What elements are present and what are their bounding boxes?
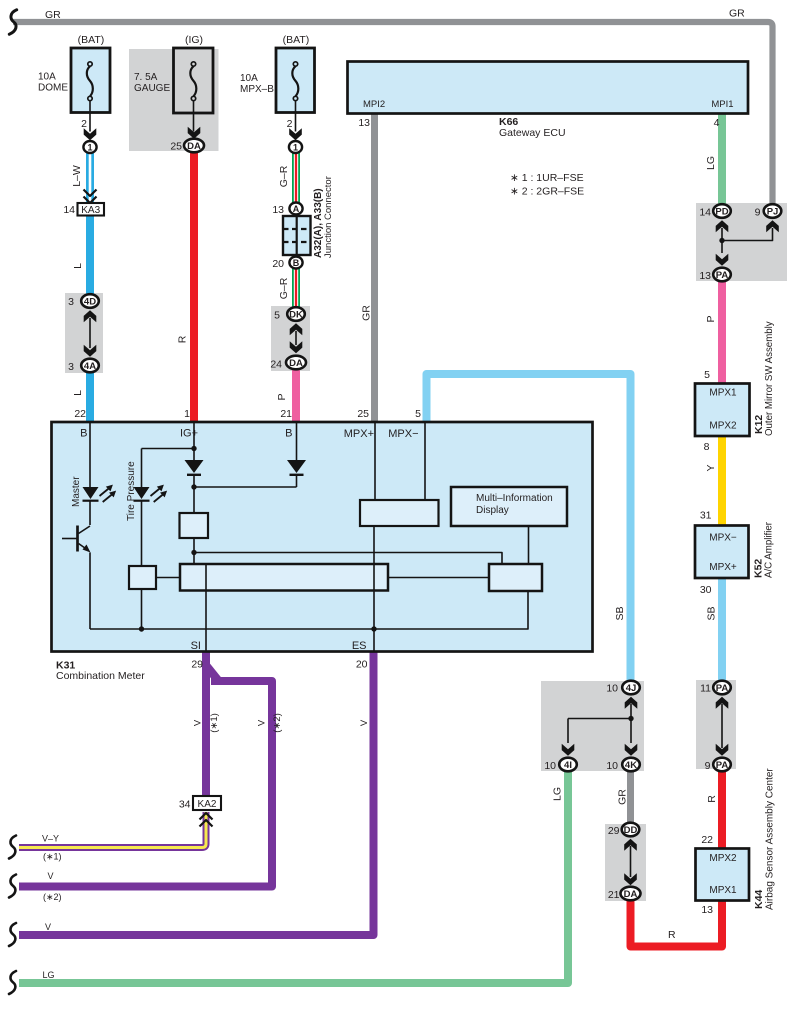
svg-text:DD: DD — [624, 825, 638, 836]
svg-text:DK: DK — [289, 310, 303, 321]
svg-text:PA: PA — [716, 683, 729, 694]
svg-text:30: 30 — [700, 584, 712, 596]
svg-text:7. 5A: 7. 5A — [134, 72, 158, 83]
svg-text:GR: GR — [361, 305, 373, 321]
svg-text:25: 25 — [170, 141, 182, 153]
svg-text:Multi–Information: Multi–Information — [476, 493, 553, 504]
svg-text:20: 20 — [272, 258, 284, 270]
svg-text:DA: DA — [624, 889, 638, 900]
svg-text:GR: GR — [617, 789, 629, 805]
svg-text:21: 21 — [608, 889, 620, 901]
svg-text:V: V — [193, 719, 204, 726]
svg-text:8: 8 — [704, 441, 710, 453]
svg-text:DA: DA — [187, 141, 201, 152]
svg-text:20: 20 — [356, 659, 368, 671]
svg-text:Combination Meter: Combination Meter — [56, 670, 145, 682]
svg-text:4D: 4D — [84, 297, 96, 308]
svg-text:31: 31 — [700, 510, 712, 522]
svg-text:PD: PD — [715, 207, 728, 218]
svg-text:9: 9 — [755, 207, 761, 219]
svg-text:V: V — [257, 719, 268, 726]
svg-text:1: 1 — [184, 408, 190, 420]
svg-text:L: L — [72, 390, 84, 396]
svg-text:11: 11 — [700, 683, 711, 695]
svg-text:PA: PA — [716, 760, 729, 771]
svg-text:MPX2: MPX2 — [709, 421, 737, 432]
svg-text:5: 5 — [274, 310, 280, 322]
svg-text:22: 22 — [701, 834, 713, 846]
svg-text:29: 29 — [608, 825, 620, 837]
svg-text:10A: 10A — [38, 72, 56, 83]
svg-text:1: 1 — [293, 143, 298, 153]
svg-text:P: P — [276, 393, 288, 400]
svg-text:25: 25 — [357, 408, 369, 420]
svg-text:LG: LG — [43, 970, 55, 980]
svg-text:PA: PA — [716, 270, 729, 281]
svg-text:G–R: G–R — [278, 165, 290, 187]
svg-text:SI: SI — [191, 640, 201, 652]
svg-text:10A: 10A — [240, 73, 258, 84]
svg-text:K44: K44 — [753, 890, 765, 909]
svg-text:13: 13 — [701, 904, 713, 916]
svg-text:Gateway ECU: Gateway ECU — [499, 127, 566, 139]
svg-text:(∗2): (∗2) — [43, 892, 62, 902]
svg-text:1: 1 — [87, 143, 92, 153]
svg-text:MPX−: MPX− — [709, 533, 737, 544]
svg-text:MPX–B: MPX–B — [240, 84, 274, 95]
svg-text:4: 4 — [714, 117, 720, 129]
svg-text:13: 13 — [272, 204, 284, 216]
svg-text:PJ: PJ — [767, 207, 779, 218]
svg-text:IG+: IG+ — [180, 428, 198, 440]
svg-text:14: 14 — [63, 204, 75, 216]
svg-text:SB: SB — [614, 606, 626, 620]
svg-text:GAUGE: GAUGE — [134, 83, 170, 94]
svg-text:MPX+: MPX+ — [344, 428, 374, 440]
svg-text:10: 10 — [606, 683, 618, 695]
svg-text:P: P — [705, 315, 717, 322]
svg-text:A/C Amplifier: A/C Amplifier — [764, 521, 775, 578]
svg-text:∗ 2 : 2GR–FSE: ∗ 2 : 2GR–FSE — [510, 186, 584, 198]
svg-text:Outer Mirror SW Assembly: Outer Mirror SW Assembly — [764, 321, 775, 436]
svg-text:V: V — [359, 719, 370, 726]
svg-text:Junction Connector: Junction Connector — [323, 176, 334, 258]
svg-text:V–Y: V–Y — [42, 834, 59, 844]
svg-text:R: R — [668, 929, 676, 941]
svg-text:4I: 4I — [564, 760, 572, 771]
svg-text:∗ 1 : 1UR–FSE: ∗ 1 : 1UR–FSE — [510, 172, 584, 184]
svg-text:DA: DA — [289, 358, 303, 369]
svg-text:SB: SB — [706, 606, 718, 620]
svg-text:MPX1: MPX1 — [709, 885, 737, 896]
svg-text:2: 2 — [81, 118, 87, 130]
svg-text:R: R — [706, 795, 718, 803]
svg-text:B: B — [293, 258, 300, 268]
svg-text:V: V — [48, 871, 54, 881]
svg-text:10: 10 — [544, 760, 556, 772]
svg-text:L–W: L–W — [71, 165, 83, 187]
svg-text:3: 3 — [68, 361, 74, 373]
svg-text:4A: 4A — [84, 361, 96, 372]
svg-text:B: B — [80, 428, 87, 440]
svg-text:29: 29 — [191, 659, 203, 671]
svg-text:24: 24 — [270, 359, 282, 371]
svg-text:ES: ES — [352, 640, 367, 652]
svg-text:MPX−: MPX− — [388, 428, 418, 440]
svg-text:Master: Master — [71, 476, 82, 507]
svg-text:13: 13 — [699, 270, 711, 282]
svg-text:4K: 4K — [625, 760, 637, 771]
svg-text:B: B — [285, 428, 292, 440]
svg-text:34: 34 — [179, 799, 191, 811]
svg-text:LG: LG — [552, 787, 564, 801]
svg-text:5: 5 — [704, 369, 710, 381]
svg-text:(∗1): (∗1) — [43, 852, 62, 862]
svg-text:MPX+: MPX+ — [709, 562, 737, 573]
svg-text:MPI2: MPI2 — [363, 99, 385, 110]
svg-text:L: L — [72, 263, 84, 269]
svg-text:5: 5 — [415, 408, 421, 420]
svg-text:22: 22 — [74, 408, 86, 420]
svg-text:GR: GR — [729, 8, 745, 20]
svg-text:KA3: KA3 — [81, 205, 100, 216]
svg-text:MPI1: MPI1 — [711, 99, 733, 110]
svg-text:LG: LG — [705, 156, 717, 170]
svg-text:Tire Pressure: Tire Pressure — [126, 461, 137, 521]
svg-text:(∗1): (∗1) — [209, 713, 220, 733]
svg-text:MPX2: MPX2 — [709, 853, 737, 864]
svg-text:3: 3 — [68, 296, 74, 308]
svg-text:10: 10 — [606, 760, 618, 772]
svg-text:21: 21 — [280, 408, 292, 420]
svg-text:4J: 4J — [626, 683, 637, 694]
svg-text:R: R — [177, 335, 189, 343]
svg-text:(BAT): (BAT) — [283, 34, 310, 46]
svg-text:V: V — [45, 922, 51, 932]
svg-text:9: 9 — [705, 760, 711, 772]
svg-text:Display: Display — [476, 505, 509, 516]
svg-text:KA2: KA2 — [198, 799, 217, 810]
svg-text:A: A — [293, 204, 300, 214]
svg-text:14: 14 — [699, 207, 711, 219]
svg-text:2: 2 — [287, 118, 293, 130]
svg-text:Y: Y — [705, 464, 717, 471]
svg-text:(BAT): (BAT) — [78, 34, 105, 46]
svg-text:(∗2): (∗2) — [272, 713, 283, 733]
svg-text:G–R: G–R — [278, 277, 290, 299]
svg-text:DOME: DOME — [38, 83, 68, 94]
svg-text:GR: GR — [45, 9, 61, 21]
svg-text:Airbag Sensor Assembly Center: Airbag Sensor Assembly Center — [765, 768, 776, 910]
svg-text:13: 13 — [358, 117, 370, 129]
svg-text:MPX1: MPX1 — [709, 388, 737, 399]
svg-text:(IG): (IG) — [185, 34, 203, 46]
